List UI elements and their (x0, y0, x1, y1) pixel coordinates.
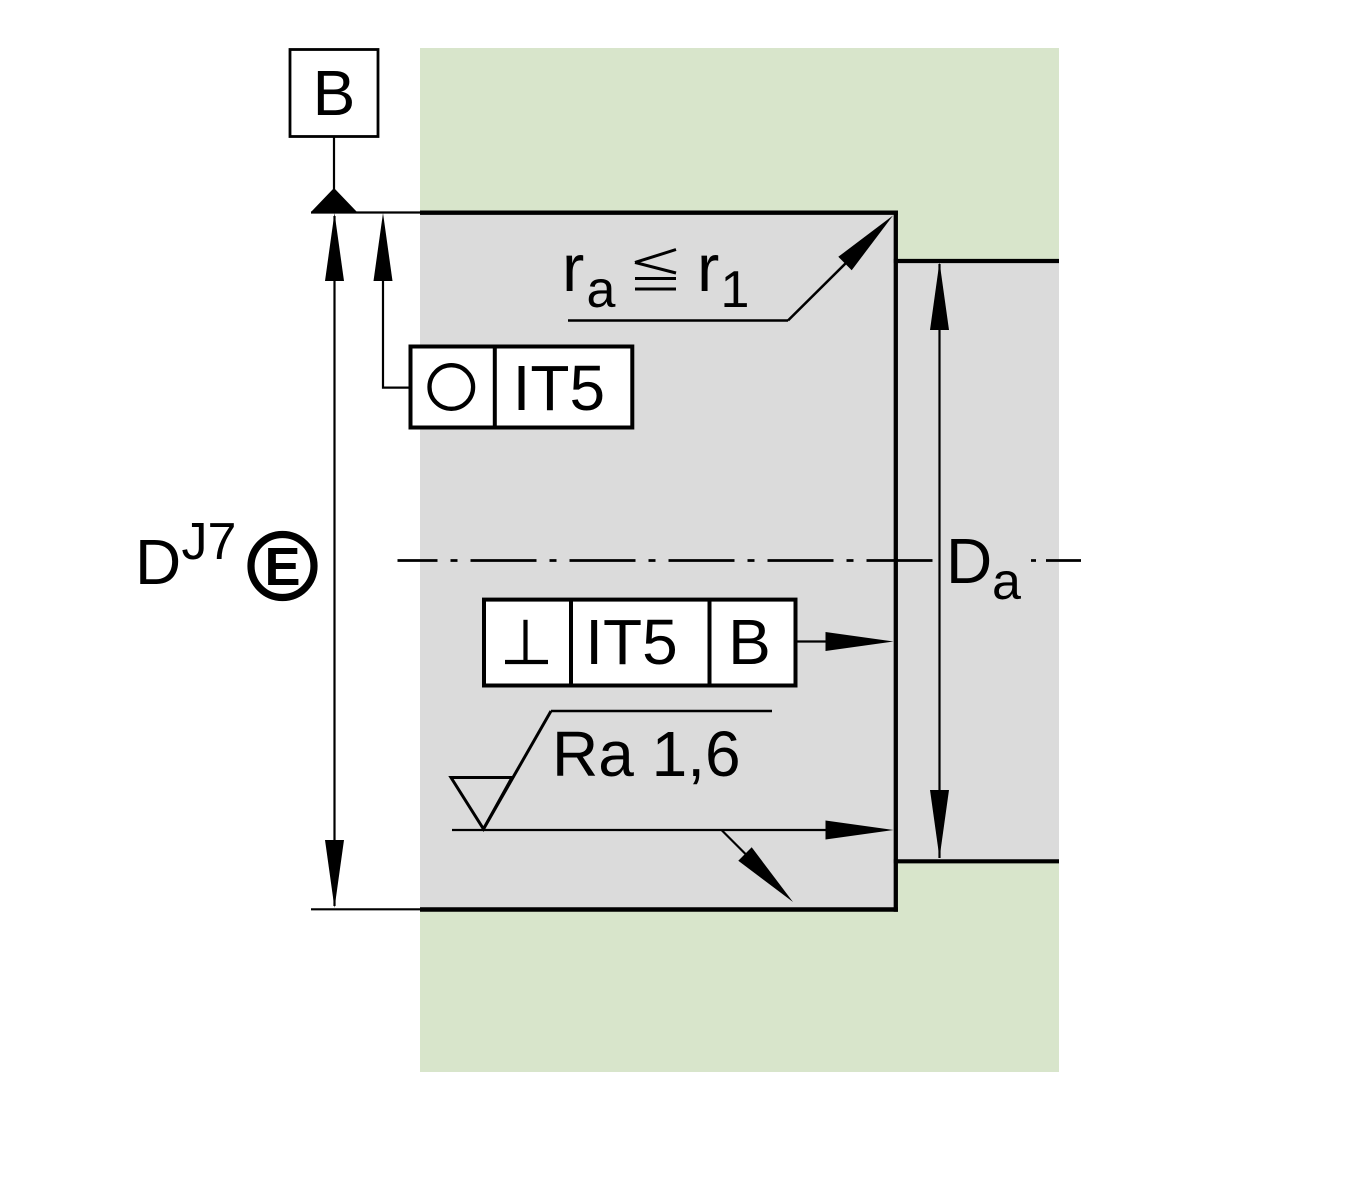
bore right edge (894, 211, 898, 912)
dimension Da arrow up (930, 262, 949, 330)
bore top edge (420, 210, 898, 214)
svg-text:J7: J7 (182, 513, 237, 571)
svg-text:B: B (728, 606, 771, 678)
perpendicularity frame (484, 600, 796, 686)
perpendicularity symbol (523, 620, 527, 662)
extension line top (311, 211, 420, 213)
svg-text:Ra 1,6: Ra 1,6 (552, 718, 741, 790)
centerline left part (398, 559, 938, 562)
circularity frame (411, 347, 633, 428)
envelope symbol circle (251, 535, 314, 598)
circularity frame divider (493, 347, 497, 428)
circularity leader arrow up (374, 213, 393, 281)
surface leader branch arrow (738, 847, 793, 902)
bore section main (gray) (420, 212, 898, 909)
datum stem (333, 137, 335, 191)
roughness note arrow (838, 216, 893, 271)
perpendicularity divider 2 (708, 600, 712, 686)
roughness note leader angled (788, 257, 852, 321)
dimension Da line (938, 264, 940, 858)
less-equal symbol (635, 250, 676, 263)
svg-text:a: a (992, 553, 1021, 611)
extension line bottom (311, 908, 420, 910)
circularity symbol (430, 365, 474, 409)
surface symbol top line (551, 710, 772, 713)
datum triangle (311, 188, 357, 212)
roughness note leader underline (568, 319, 788, 322)
surface symbol triangle (451, 778, 512, 830)
surface leader branch (722, 830, 748, 856)
svg-text:B: B (313, 57, 356, 129)
circularity leader line (383, 260, 412, 388)
dimension line D vertical (333, 216, 335, 906)
svg-text:IT5: IT5 (513, 352, 605, 424)
housing material band (green) (420, 48, 1059, 1072)
svg-text:IT5: IT5 (585, 606, 677, 678)
bore bottom edge (420, 907, 898, 911)
perpendicularity leader line (796, 640, 831, 642)
dimension D arrow up (325, 213, 344, 281)
svg-text:r: r (562, 231, 584, 306)
svg-text:D: D (946, 525, 992, 597)
centerline dot right (1031, 559, 1036, 562)
shoulder bottom edge (894, 859, 1059, 863)
surface symbol long leg (484, 711, 552, 829)
perpendicularity leader arrow (826, 632, 894, 651)
svg-text:1: 1 (721, 261, 750, 319)
svg-text:r: r (697, 231, 719, 306)
surface leader arrow right (826, 821, 894, 840)
svg-text:D: D (135, 526, 181, 598)
dimension D arrow down (325, 840, 344, 908)
surface leader line (452, 829, 830, 831)
bore section step right (gray) (896, 261, 1059, 861)
perpendicularity divider 1 (569, 600, 573, 686)
svg-text:E: E (264, 537, 300, 597)
svg-text:a: a (587, 261, 616, 319)
centerline dash right (1046, 559, 1081, 562)
dimension Da arrow down (930, 790, 949, 858)
shoulder top edge (894, 259, 1059, 263)
datum B box (290, 50, 378, 137)
